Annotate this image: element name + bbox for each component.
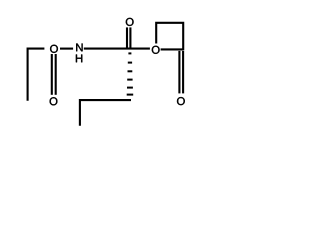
wire hashed wedge stereo bond dash 1 — [128, 52, 131, 54]
wire hashed wedge dash 6 — [127, 94, 134, 96]
node O ester left — [50, 45, 58, 53]
wire O=O double bond left line 2 — [55, 54, 57, 95]
wire propyl chain bonds — [80, 100, 131, 126]
wire hashed wedge dash 4 — [127, 79, 132, 81]
wire ethyl C-C and C-O bonds — [28, 49, 45, 101]
node O carbonyl top — [126, 18, 134, 26]
wire O-N single bond — [60, 48, 73, 50]
wire hashed wedge dash 5 — [127, 87, 133, 89]
node O double-bonded lower left — [50, 97, 58, 105]
wire ring C=O double bond line 2 — [182, 51, 184, 94]
wire oxetanone ring bottom edge — [161, 48, 184, 50]
wire C=O double bond top line 2 — [129, 27, 131, 48]
wire N-C-O backbone bond — [84, 48, 150, 50]
node H on N — [76, 55, 82, 63]
wire hashed wedge dash 3 — [128, 70, 133, 72]
wire ring C=O double bond line 1 — [178, 51, 180, 94]
node O ring carbonyl bottom — [177, 97, 185, 105]
wire oxetanone ring left, top, right edges — [156, 23, 183, 51]
node N amide — [76, 44, 82, 52]
wire O=O double bond left line 1 — [51, 54, 53, 95]
wire hashed wedge dash 2 — [128, 62, 132, 64]
node O ring ester — [152, 46, 160, 54]
wire C=O double bond top line 1 — [126, 27, 128, 48]
